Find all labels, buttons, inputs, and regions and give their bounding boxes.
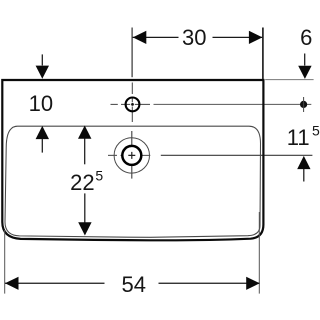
svg-text:6: 6 [300, 25, 312, 50]
wire horizontal centerline of tap hole (y=104.4) [111, 103, 312, 105]
dimension 30: right tick and extension to basin corner [262, 28, 264, 80]
wire vertical centerline through drain hole [131, 131, 133, 179]
dimension 30: left tick / centerline upper segment [131, 28, 133, 78]
dimension 22.5: down arrowhead at basin bottom [78, 222, 91, 235]
dimension 10: up arrowhead at inner rim [36, 126, 49, 139]
dimension 6: tick through dot [303, 97, 305, 112]
wire vertical centerline of tap hole (dash-dot, x=132) [131, 83, 133, 123]
svg-text:10: 10 [29, 91, 53, 116]
dimension 54: left extension line [4, 230, 6, 294]
dimension 10: lower stem [41, 139, 43, 153]
dimension 22.5: up arrowhead at inner rim [78, 126, 91, 139]
dimension 6: extension line from basin top edge [265, 79, 313, 81]
dimension 6: down arrowhead [298, 66, 311, 79]
dimension 30: dimension line segments [133, 36, 263, 38]
dimension 11.5: stem [303, 169, 305, 182]
drain hole inner circle [122, 146, 141, 165]
dimension 22.5: upper stem [84, 139, 86, 165]
svg-text:30: 30 [182, 25, 206, 50]
basin inner rim outline (thin) [5, 126, 261, 237]
dimension 6: stem [304, 54, 306, 66]
wire dimension reference line 11.5 (y=155.35 long) [161, 154, 313, 156]
drain hole outer circle [114, 138, 149, 173]
dimension 6: filled dot on tap hole centerline [300, 101, 307, 108]
dimension 22.5: lower stem [84, 193, 86, 222]
dimension 54: dimension line segments [5, 282, 260, 284]
dimension 10: down arrowhead at basin top edge [36, 66, 49, 79]
dimension 30: right arrowhead [249, 31, 263, 44]
dimension 54: right extension line [258, 212, 260, 294]
svg-text:5: 5 [95, 168, 103, 184]
svg-text:54: 54 [122, 272, 146, 297]
wire horizontal centerline of drain hole (y=155.35) [108, 154, 150, 156]
dimension 10: upper stem [41, 54, 43, 65]
svg-text:11: 11 [287, 125, 310, 150]
dimension 30: left arrowhead [133, 31, 147, 44]
dimension 54: right arrowhead [246, 277, 260, 290]
dimension 54: left arrowhead [5, 277, 19, 290]
svg-text:22: 22 [70, 170, 94, 195]
svg-text:5: 5 [312, 123, 320, 139]
dimension 11.5: up arrowhead [297, 156, 310, 169]
tap hole center dot [131, 103, 134, 106]
tap hole circle [126, 98, 140, 112]
drain hole center cross [128, 152, 135, 159]
basin outer outline (thick) [2, 80, 263, 240]
